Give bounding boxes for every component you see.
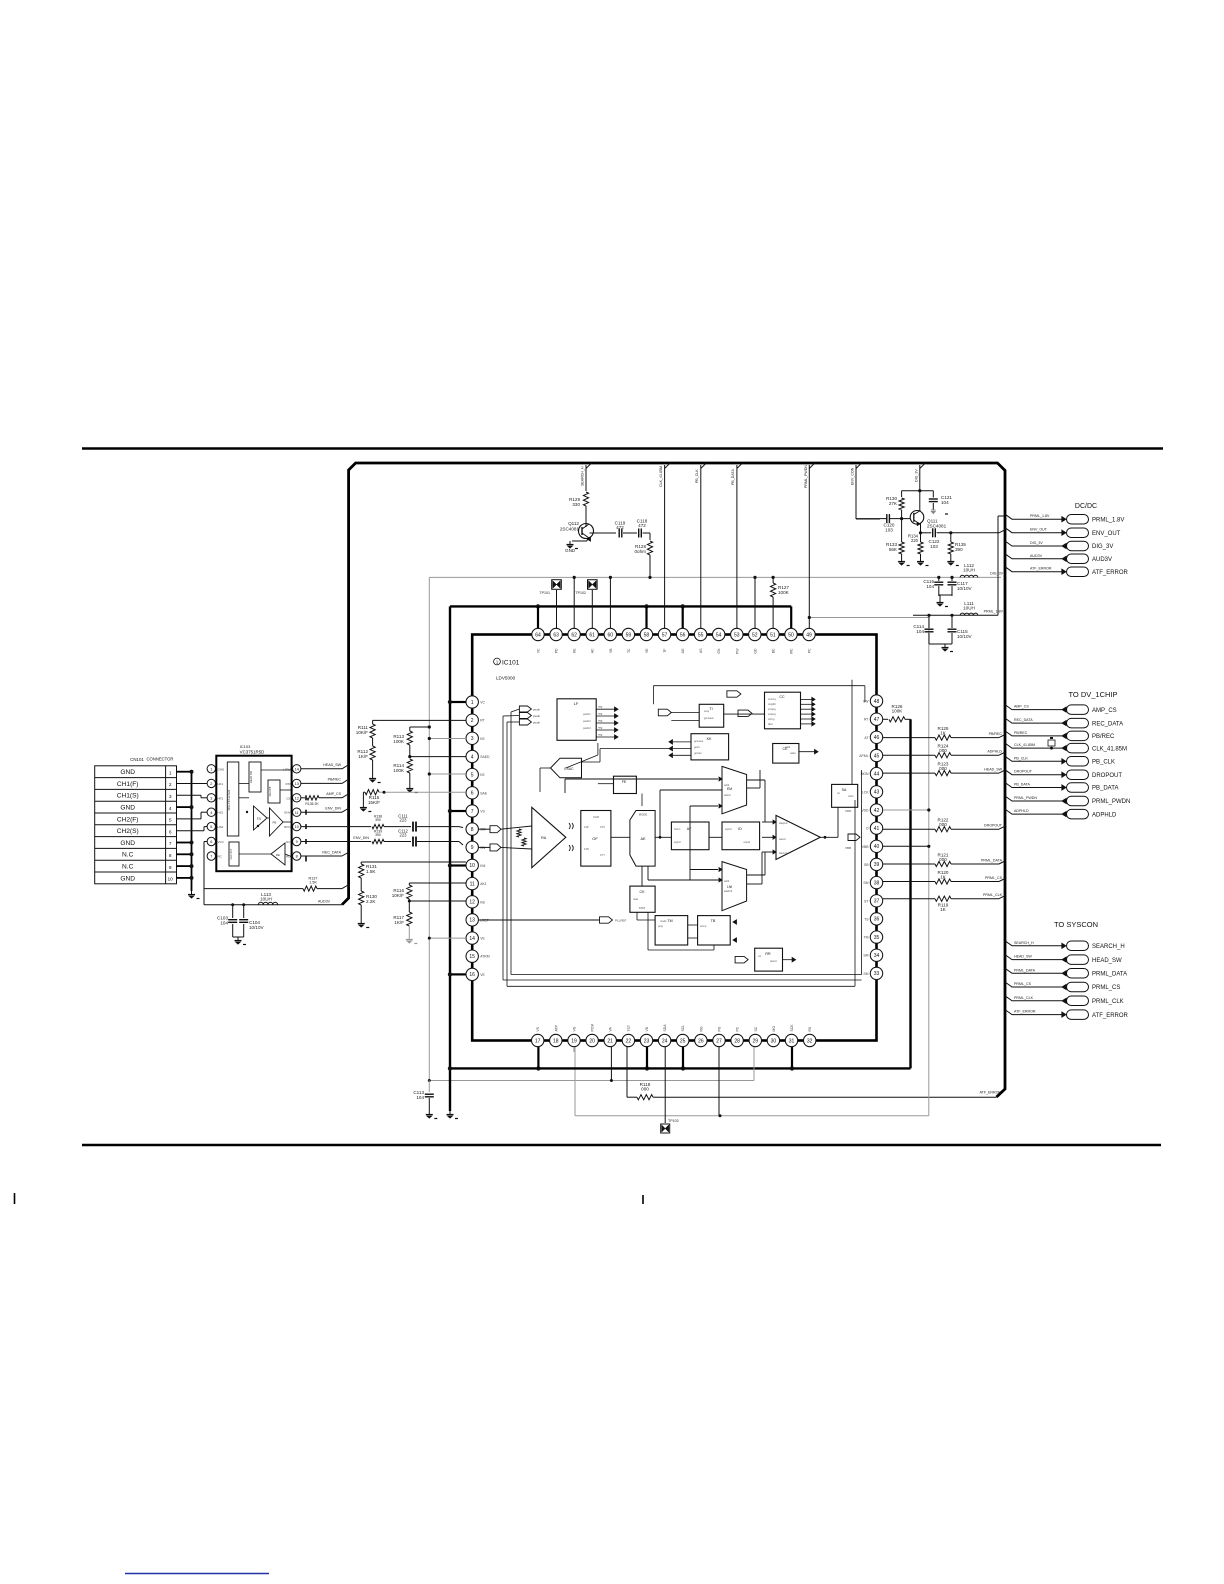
power bus top horizontal bbox=[450, 605, 791, 607]
amp output (big triangle) bbox=[776, 815, 820, 859]
svg-text:TM: TM bbox=[667, 919, 672, 923]
svg-text:GND: GND bbox=[120, 875, 135, 882]
svg-text:47: 47 bbox=[874, 717, 880, 723]
svg-text:semp: semp bbox=[700, 925, 707, 928]
connector PRML_PWDN (DV_1CHIP) bbox=[1005, 796, 1062, 801]
svg-text:Q112: Q112 bbox=[568, 521, 579, 526]
wire stub pin64 bbox=[537, 606, 539, 628]
wire stub pin58 bbox=[645, 606, 647, 628]
svg-text:SAE: SAE bbox=[480, 791, 488, 795]
IC U101 LDV5000 boundary bbox=[472, 635, 876, 1041]
inductor L111 10uH bbox=[960, 613, 978, 615]
svg-text:4: 4 bbox=[169, 806, 172, 812]
connector PRML_DATA (SYSCON) bbox=[1005, 968, 1062, 973]
svg-text:104: 104 bbox=[916, 629, 924, 634]
svg-text:103: 103 bbox=[930, 544, 938, 549]
svg-text:PRML_CS: PRML_CS bbox=[985, 876, 1003, 880]
svg-text:3: 3 bbox=[169, 794, 172, 800]
svg-text:SA: SA bbox=[842, 788, 847, 792]
svg-text:PRML_CS: PRML_CS bbox=[1092, 985, 1120, 991]
wire ENV_CON vertical bbox=[856, 463, 862, 469]
IC101 right pins 48..33 bbox=[870, 695, 882, 707]
svg-text:44: 44 bbox=[874, 771, 880, 777]
svg-text:TP102: TP102 bbox=[575, 591, 586, 595]
svg-text:ENV_CON: ENV_CON bbox=[851, 467, 855, 485]
svg-text:DIG_3V: DIG_3V bbox=[914, 469, 918, 482]
svg-text:hsmn: hsmn bbox=[674, 827, 681, 831]
wire PB_DATA vertical bbox=[737, 463, 743, 469]
svg-text:60: 60 bbox=[608, 632, 614, 638]
svg-text:P/R: P/R bbox=[285, 782, 291, 786]
power bus junction dots bbox=[536, 604, 540, 608]
svg-text:DC/DC: DC/DC bbox=[1075, 503, 1097, 510]
svg-text:R136 2K: R136 2K bbox=[305, 802, 319, 806]
gray rail vertical left bbox=[428, 577, 430, 1080]
wire EM output to amp bbox=[747, 779, 765, 781]
svg-text:13: 13 bbox=[469, 918, 475, 924]
wire stub pin50 bbox=[790, 606, 792, 628]
mux LN lower bbox=[722, 862, 747, 911]
svg-text:admd: admd bbox=[724, 793, 731, 797]
svg-text:VE: VE bbox=[480, 937, 485, 941]
svg-text:56: 56 bbox=[680, 632, 686, 638]
svg-text:VS: VS bbox=[536, 1026, 540, 1031]
svg-text:REC/PB: REC/PB bbox=[268, 786, 272, 796]
IC103 right pins 14-8 bbox=[293, 765, 301, 773]
wire pin21 to gray rail bbox=[610, 1047, 612, 1081]
svg-text:18: 18 bbox=[553, 1038, 559, 1044]
svg-text:8: 8 bbox=[169, 853, 172, 859]
svg-text:64: 64 bbox=[535, 632, 541, 638]
svg-text:AMP_CS: AMP_CS bbox=[1014, 705, 1029, 709]
resistor R124 000 bbox=[883, 754, 935, 756]
capacitor C111 223 bbox=[412, 822, 414, 832]
svg-text:rstat: rstat bbox=[633, 897, 638, 901]
svg-text:aamd: aamd bbox=[779, 837, 786, 841]
svg-text:STAT: STAT bbox=[639, 906, 646, 910]
svg-text:15K/F: 15K/F bbox=[368, 800, 380, 805]
wire feed to LN input B bbox=[647, 866, 649, 880]
svg-text:PRML_DATA: PRML_DATA bbox=[1014, 968, 1036, 972]
svg-text:PB_DATA: PB_DATA bbox=[1014, 783, 1030, 787]
svg-text:AMP_CS: AMP_CS bbox=[326, 792, 341, 796]
resistor R120 1K bbox=[883, 881, 935, 883]
svg-text:gcmeaux: gcmeaux bbox=[704, 717, 715, 720]
svg-text:SCK: SCK bbox=[790, 1024, 794, 1032]
wire stub pin7 bbox=[450, 810, 466, 812]
wire ENV_DIN2 from IC103 pin9 (to pin9 of IC101) bbox=[301, 841, 371, 843]
svg-text:223: 223 bbox=[400, 833, 408, 838]
wire stub pin16 bbox=[450, 973, 466, 975]
svg-text:30: 30 bbox=[771, 1038, 777, 1044]
svg-text:62: 62 bbox=[571, 632, 577, 638]
svg-text:PRML_1.8V: PRML_1.8V bbox=[984, 610, 1004, 614]
ground C116 C117 bbox=[939, 594, 952, 596]
svg-text:DIG_3V: DIG_3V bbox=[1092, 544, 1113, 550]
wire feed to EM input B bbox=[690, 805, 718, 807]
wire Q111 emitter node bbox=[920, 524, 922, 533]
svg-text:tdec: tdec bbox=[768, 722, 774, 726]
pentagon EXAC bbox=[551, 758, 582, 778]
svg-text:36: 36 bbox=[874, 917, 880, 923]
block TI bbox=[699, 704, 724, 727]
gray rail bottom-left horizontal bbox=[429, 1080, 754, 1082]
svg-text:VB: VB bbox=[609, 648, 613, 653]
svg-text:8: 8 bbox=[296, 855, 298, 859]
wire pin19 gray bbox=[573, 1047, 575, 1052]
svg-text:HS2: HS2 bbox=[218, 825, 224, 829]
svg-text:PRML_CS: PRML_CS bbox=[1014, 982, 1032, 986]
wire CH1(S) to IC103 pin3 bbox=[177, 794, 202, 796]
svg-text:GD: GD bbox=[753, 648, 757, 654]
wire pin14 net bbox=[429, 937, 466, 939]
resistor R139 390 bbox=[372, 839, 384, 843]
wire pin4 net bbox=[410, 756, 466, 758]
svg-text:42: 42 bbox=[874, 808, 880, 814]
svg-text:2: 2 bbox=[471, 718, 474, 724]
svg-text:51: 51 bbox=[770, 632, 776, 638]
inductor L112 10uH bbox=[960, 575, 978, 577]
svg-text:ATF_ERROR: ATF_ERROR bbox=[1030, 567, 1052, 571]
svg-text:1K: 1K bbox=[940, 730, 947, 735]
svg-text:1: 1 bbox=[210, 767, 212, 771]
svg-text:REC_DATA: REC_DATA bbox=[322, 851, 341, 855]
svg-text:104: 104 bbox=[416, 1095, 424, 1100]
svg-text:17: 17 bbox=[535, 1038, 541, 1044]
horizontal rule top bbox=[82, 447, 1163, 450]
svg-text:PB_CLK: PB_CLK bbox=[1092, 760, 1115, 766]
IC103 rec current source block bbox=[229, 842, 239, 866]
svg-text:MO: MO bbox=[772, 1026, 776, 1032]
resistor R122 000 bbox=[883, 828, 935, 830]
svg-text:AF: AF bbox=[687, 827, 692, 831]
connector CLK_41.85M (DV_1CHIP) bbox=[1005, 743, 1062, 748]
wire AUD3V to outline bottom-left bbox=[204, 904, 342, 906]
connector ADPHLD (DV_1CHIP) bbox=[1005, 809, 1062, 814]
svg-text:000: 000 bbox=[939, 822, 947, 827]
capacitor C117 10/10V bbox=[951, 577, 953, 581]
resistor R115 15K/F bbox=[365, 790, 379, 795]
svg-text:9: 9 bbox=[296, 840, 298, 844]
ground C121 bbox=[931, 509, 936, 511]
svg-text:reg: reg bbox=[598, 705, 603, 709]
svg-text:TF: TF bbox=[663, 649, 667, 653]
svg-text:ccqerg: ccqerg bbox=[768, 712, 776, 716]
svg-text:8: 8 bbox=[471, 827, 474, 833]
svg-text:DIG_3V: DIG_3V bbox=[1030, 541, 1043, 545]
capacitor C114 104 bbox=[928, 615, 930, 628]
svg-text:odeo: odeo bbox=[790, 751, 796, 755]
svg-text:AUD3V: AUD3V bbox=[1092, 557, 1112, 563]
svg-text:ccomq: ccomq bbox=[768, 698, 776, 701]
resistor R126 100K bbox=[883, 718, 888, 720]
resistor R114 100K bbox=[407, 759, 412, 773]
svg-text:gcmeup: gcmeup bbox=[694, 740, 704, 743]
svg-text:104: 104 bbox=[926, 584, 934, 589]
svg-text:000: 000 bbox=[939, 748, 947, 753]
wire AMP_CS from IC103 pin12 bbox=[301, 797, 305, 799]
horizontal rule bottom bbox=[82, 1144, 1161, 1147]
svg-text:SEARCH_H: SEARCH_H bbox=[1014, 941, 1034, 945]
svg-text:RS: RS bbox=[808, 1026, 812, 1031]
svg-text:2SC4081: 2SC4081 bbox=[560, 527, 580, 532]
svg-text:VC: VC bbox=[480, 701, 485, 705]
IC101 top pins 64..49 bbox=[532, 628, 544, 640]
svg-text:AMP_CS: AMP_CS bbox=[1092, 708, 1117, 714]
wire TB feedback bbox=[713, 945, 715, 950]
wire RF out from IC103 pin10 (to pin8 of IC101) bbox=[301, 826, 371, 828]
svg-text:LDV5000: LDV5000 bbox=[496, 676, 516, 681]
svg-text:ccgdrk: ccgdrk bbox=[768, 702, 776, 706]
ground C114 C115 bbox=[929, 643, 952, 645]
capacitor C120 103 bbox=[886, 514, 888, 523]
svg-text:10: 10 bbox=[168, 877, 174, 883]
ground CN101 bbox=[191, 891, 193, 895]
svg-text:11: 11 bbox=[295, 811, 299, 815]
svg-text:OF: OF bbox=[592, 836, 598, 841]
svg-text:VCC: VCC bbox=[218, 840, 225, 844]
resistor R138 390 bbox=[372, 824, 384, 828]
svg-text:103: 103 bbox=[885, 528, 893, 533]
capacitor C116 104 bbox=[938, 577, 940, 581]
svg-text:TM: TM bbox=[864, 936, 869, 940]
resistor R111 10K/F bbox=[372, 720, 374, 724]
svg-text:pwdn: pwdn bbox=[533, 721, 541, 725]
svg-text:000: 000 bbox=[641, 1087, 649, 1092]
svg-text:CK: CK bbox=[640, 890, 646, 894]
svg-text:REC_DATA: REC_DATA bbox=[1092, 721, 1123, 727]
svg-text:63: 63 bbox=[553, 632, 559, 638]
svg-text:TB: TB bbox=[711, 919, 716, 923]
svg-text:CONNECTOR: CONNECTOR bbox=[147, 757, 174, 762]
svg-text:14: 14 bbox=[469, 936, 475, 942]
wire pin27 to gray rail bbox=[718, 1047, 720, 1116]
IC101 left pins 1..16 bbox=[466, 696, 478, 708]
svg-text:10/10V: 10/10V bbox=[249, 925, 264, 930]
connector PB_CLK (DV_1CHIP) bbox=[1005, 756, 1062, 761]
wire EXAC to KK bbox=[582, 761, 601, 763]
wire ENV_DIN from IC103 pin11 bbox=[301, 811, 342, 813]
svg-text:KE: KE bbox=[480, 773, 485, 777]
gray rail stub up to pin 19 column bbox=[574, 1047, 576, 1116]
wire pin2 net bbox=[373, 719, 466, 721]
svg-text:27K: 27K bbox=[889, 501, 898, 506]
svg-text:5: 5 bbox=[169, 818, 172, 824]
resistor R135 390 bbox=[949, 531, 952, 534]
svg-text:pwdn3: pwdn3 bbox=[583, 726, 591, 730]
IC103 internal wires bbox=[239, 782, 249, 784]
svg-text:ST: ST bbox=[864, 899, 868, 903]
ground for power bus bbox=[449, 1111, 451, 1115]
resistor R131 1.5K bbox=[360, 862, 362, 864]
wire ATF_ERROR bottom edge bbox=[658, 1096, 997, 1098]
test point TP102 bbox=[588, 580, 598, 590]
svg-text:PB: PB bbox=[273, 821, 277, 825]
svg-text:reg: reg bbox=[598, 726, 603, 730]
svg-text:1.5K: 1.5K bbox=[309, 881, 317, 885]
wire PRML_1.8V to edge bbox=[997, 516, 999, 615]
svg-text:mode: mode bbox=[660, 919, 667, 923]
svg-text:AC: AC bbox=[591, 648, 595, 653]
svg-text:104: 104 bbox=[220, 921, 228, 926]
wire PRML_PWDN vertical bbox=[809, 463, 815, 469]
svg-text:SB: SB bbox=[864, 863, 869, 867]
wire stub pin23 bbox=[646, 1047, 648, 1068]
svg-text:100K: 100K bbox=[778, 590, 790, 595]
svg-text:PB/REC: PB/REC bbox=[328, 778, 342, 782]
svg-text:GND: GND bbox=[120, 840, 135, 847]
svg-text:PRML_CLK: PRML_CLK bbox=[983, 893, 1003, 897]
resistor R121 000 bbox=[883, 863, 935, 865]
svg-text:PB/REC: PB/REC bbox=[1092, 734, 1115, 740]
svg-text:390: 390 bbox=[375, 833, 381, 837]
svg-text:VA: VA bbox=[609, 1026, 613, 1031]
svg-text:cctrrg: cctrrg bbox=[768, 717, 775, 721]
svg-text:WC: WC bbox=[790, 648, 794, 654]
block CK bbox=[630, 886, 655, 912]
ground for Q112 bbox=[569, 541, 571, 545]
svg-text:CH2(S): CH2(S) bbox=[117, 828, 139, 835]
wire feed to LN input A bbox=[690, 869, 718, 871]
wire HEAD_SW from IC103 pin14 bbox=[301, 768, 342, 770]
svg-text:ENV_DIN: ENV_DIN bbox=[353, 836, 369, 840]
svg-text:41: 41 bbox=[874, 826, 880, 832]
svg-text:GND: GND bbox=[120, 769, 135, 776]
svg-text:cerq: cerq bbox=[704, 709, 710, 713]
ground R135 bbox=[950, 558, 952, 562]
mux EM upper bbox=[722, 766, 747, 813]
svg-text:32: 32 bbox=[807, 1038, 813, 1044]
IC103 left pins 1-7 bbox=[207, 765, 215, 773]
connector REC_DATA (DV_1CHIP) bbox=[1005, 718, 1062, 723]
wire C112 to pin9 bbox=[459, 842, 463, 846]
block AE (agc) bbox=[630, 811, 655, 867]
connector PRML_CLK (SYSCON) bbox=[1005, 996, 1062, 1001]
svg-text:adrd: adrd bbox=[724, 783, 730, 787]
wire ATF_ERROR inner bbox=[928, 1074, 930, 1076]
wire stub pin17 bbox=[537, 1047, 539, 1068]
svg-text:57: 57 bbox=[662, 632, 668, 638]
svg-text:28: 28 bbox=[734, 1038, 740, 1044]
svg-text:ENV_OUT: ENV_OUT bbox=[1092, 531, 1121, 537]
svg-text:ATP: ATP bbox=[554, 1024, 558, 1031]
node Q111 collector rail bbox=[902, 490, 934, 492]
svg-text:3: 3 bbox=[210, 796, 212, 800]
svg-text:TP101: TP101 bbox=[539, 591, 550, 595]
svg-text:PB/REC: PB/REC bbox=[1014, 731, 1028, 735]
blue footer underline bbox=[125, 1573, 269, 1575]
resistor R113 100K bbox=[409, 727, 411, 731]
svg-text:56K: 56K bbox=[889, 547, 898, 552]
svg-text:390: 390 bbox=[955, 547, 963, 552]
gray rail vertical right bbox=[928, 618, 930, 1116]
block FE bbox=[614, 776, 637, 793]
svg-text:14: 14 bbox=[295, 767, 299, 771]
connector PRML_1.8V (DC/DC) bbox=[1005, 514, 1062, 519]
svg-text:390: 390 bbox=[375, 818, 381, 822]
svg-text:LCK: LCK bbox=[862, 790, 869, 794]
svg-text:330: 330 bbox=[572, 502, 580, 507]
wire stub pin31 bbox=[791, 1047, 793, 1068]
wire TM to TB bbox=[688, 924, 698, 926]
svg-text:pwdn2: pwdn2 bbox=[583, 719, 591, 723]
svg-text:CH2(F): CH2(F) bbox=[117, 816, 139, 823]
wire pin3 net bbox=[429, 738, 466, 740]
svg-text:MODE: MODE bbox=[639, 813, 648, 817]
svg-text:29: 29 bbox=[753, 1038, 759, 1044]
svg-text:SM: SM bbox=[863, 972, 868, 976]
power bus left vertical bbox=[449, 606, 451, 1111]
svg-text:BC: BC bbox=[771, 648, 775, 653]
input network pin9 bbox=[478, 846, 490, 848]
svg-text:VE: VE bbox=[480, 973, 485, 977]
svg-text:REC OUT: REC OUT bbox=[230, 848, 233, 859]
svg-text:5: 5 bbox=[471, 772, 474, 778]
bias resistors RA bbox=[517, 829, 521, 837]
svg-text:VG: VG bbox=[573, 1026, 577, 1031]
IC103 multiplexer block bbox=[227, 762, 239, 836]
resistor R112 1K/F bbox=[372, 738, 374, 746]
svg-text:AUD3V: AUD3V bbox=[318, 900, 331, 904]
svg-text:O: O bbox=[866, 827, 869, 831]
block SA bbox=[832, 784, 858, 807]
svg-text:CH1(S): CH1(S) bbox=[117, 793, 139, 800]
svg-text:21: 21 bbox=[607, 1038, 613, 1044]
svg-text:SC: SC bbox=[754, 1026, 758, 1031]
wire REC_DATA from IC103 pin8 bbox=[301, 855, 330, 857]
svg-text:RT: RT bbox=[864, 718, 868, 722]
svg-text:ENV_OUT: ENV_OUT bbox=[1030, 528, 1048, 532]
svg-text:58: 58 bbox=[644, 632, 650, 638]
svg-text:SCL: SCL bbox=[681, 1025, 685, 1032]
svg-text:PB_DATA: PB_DATA bbox=[731, 469, 735, 485]
svg-text:34: 34 bbox=[874, 953, 880, 959]
wire pin52 to rail bbox=[754, 577, 756, 628]
svg-text:000: 000 bbox=[939, 766, 947, 771]
svg-text:PRML_1.8V: PRML_1.8V bbox=[1030, 514, 1050, 518]
ground R134 bbox=[920, 558, 922, 562]
svg-text:slaqmd: slaqmd bbox=[779, 821, 788, 825]
svg-text:15: 15 bbox=[469, 954, 475, 960]
svg-text:SDA: SDA bbox=[663, 1024, 667, 1032]
svg-text:PRML_1.8V: PRML_1.8V bbox=[1092, 517, 1124, 523]
svg-text:ccsprg: ccsprg bbox=[768, 707, 776, 711]
capacitor C115 10/10V bbox=[951, 615, 953, 628]
block TM bbox=[655, 916, 688, 945]
IC IC103 VC3751R5D bbox=[216, 756, 291, 872]
svg-text:demd: demd bbox=[770, 959, 777, 963]
resistor R133 56K bbox=[901, 519, 903, 542]
svg-text:AT: AT bbox=[864, 736, 868, 740]
wire C118 to R128 bbox=[643, 532, 650, 534]
svg-text:TST: TST bbox=[627, 1025, 631, 1031]
jumper on CLK_41.85M line bbox=[1048, 740, 1055, 746]
svg-text:CTY: CTY bbox=[600, 853, 605, 857]
svg-text:DIG_3V: DIG_3V bbox=[990, 572, 1003, 576]
svg-text:ATF_ERROR: ATF_ERROR bbox=[1014, 1010, 1036, 1014]
wire stub pin10 bbox=[450, 864, 466, 866]
svg-text:N.C: N.C bbox=[122, 864, 134, 871]
svg-text:HEAD SW: HEAD SW bbox=[249, 770, 253, 783]
wire CLK_41.85M vertical bbox=[665, 463, 671, 469]
power bus right vertical bbox=[909, 719, 911, 1068]
svg-text:HEAD_SW: HEAD_SW bbox=[1014, 955, 1032, 959]
svg-text:1K: 1K bbox=[940, 874, 947, 879]
IC101 bottom pins 17..32 bbox=[532, 1034, 544, 1046]
svg-text:PRML_PWDN: PRML_PWDN bbox=[1092, 799, 1130, 805]
test point TP101 bbox=[552, 580, 562, 590]
svg-text:39: 39 bbox=[874, 862, 880, 868]
